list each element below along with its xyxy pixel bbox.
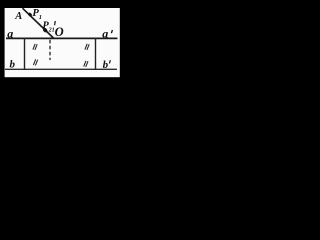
svg-text:b: b [103, 59, 109, 71]
svg-text:a: a [7, 26, 13, 40]
svg-text:a: a [102, 26, 108, 40]
svg-text:O: O [55, 25, 64, 39]
svg-text:b: b [10, 58, 16, 70]
svg-text:A: A [14, 11, 22, 22]
